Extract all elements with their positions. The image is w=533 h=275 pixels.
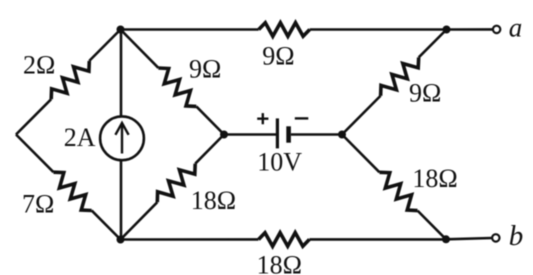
svg-text:a: a xyxy=(509,13,523,43)
svg-text:9Ω: 9Ω xyxy=(409,79,441,108)
svg-text:9Ω: 9Ω xyxy=(189,55,221,84)
svg-text:18Ω: 18Ω xyxy=(412,164,457,193)
svg-text:9Ω: 9Ω xyxy=(262,42,294,71)
svg-text:18Ω: 18Ω xyxy=(191,186,236,215)
svg-text:2A: 2A xyxy=(64,123,96,152)
svg-text:2Ω: 2Ω xyxy=(23,51,55,80)
svg-text:b: b xyxy=(509,220,524,252)
svg-text:7Ω: 7Ω xyxy=(22,189,54,218)
svg-text:18Ω: 18Ω xyxy=(257,251,302,275)
svg-text:10V: 10V xyxy=(257,148,302,177)
